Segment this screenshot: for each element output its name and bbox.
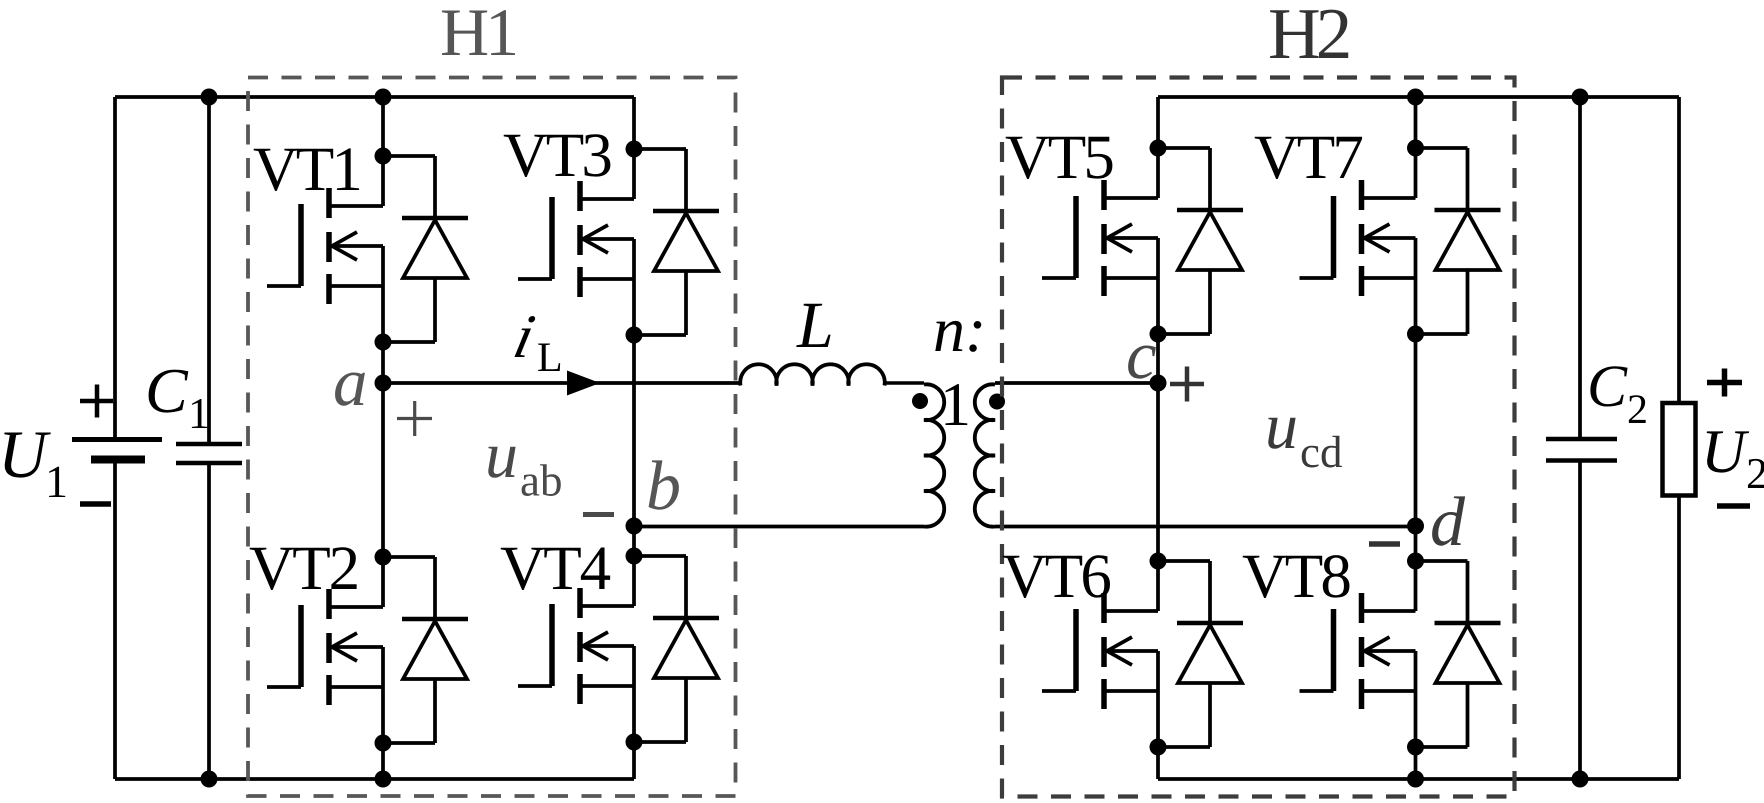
wire: H2 leg 1 (VT5/VT6) [1156,97,1160,779]
transistor VT8 [1300,553,1501,756]
node dots bottom rails [201,771,1589,788]
svg-text:c: c [1126,317,1157,393]
svg-text:L: L [796,289,834,362]
svg-text:u: u [1265,390,1298,463]
wire: leg A (VT1/VT2) [381,97,385,779]
transformer secondary winding [975,384,995,526]
plus sign node a [397,401,432,436]
svg-text:VT8: VT8 [1242,541,1350,611]
svg-text:U: U [1701,418,1750,486]
transistor VT5 [1042,140,1243,343]
svg-text:C: C [145,355,189,426]
wire: H2 bottom rail [1158,777,1679,781]
transformer primary polarity dot [912,393,928,409]
svg-text:VT1: VT1 [253,134,360,204]
transistor VT7 [1300,140,1501,343]
wire: source U1 branch [113,97,117,779]
svg-text:H1: H1 [440,0,515,70]
minus sign U1 [80,501,111,507]
wire: node a to inductor [383,381,741,385]
transformer primary winding [924,384,944,526]
minus sign node d [1369,541,1400,547]
wire: node b to transformer primary bottom [634,525,924,529]
svg-text:U: U [0,416,51,492]
svg-text:C: C [1587,353,1628,419]
battery U1 [72,440,162,460]
svg-text:n:: n: [933,294,986,365]
transformer secondary polarity dot [989,394,1005,410]
node a [375,375,392,392]
wire: load branch [1677,97,1681,779]
svg-text:u: u [485,419,518,492]
svg-text:2: 2 [1627,387,1648,433]
svg-text:1: 1 [45,456,68,507]
minus sign node b [583,512,614,517]
transistor VT6 [1042,553,1243,756]
transistor VT3 [518,141,719,344]
svg-text:H2: H2 [1268,0,1349,74]
svg-text:cd: cd [1300,427,1342,477]
svg-text:VT3: VT3 [503,120,611,190]
plus sign U1 [80,385,113,418]
svg-text:L: L [537,335,563,381]
wire: H2 top rail [1158,95,1679,99]
svg-text:ab: ab [520,456,562,506]
svg-text:VT7: VT7 [1254,122,1362,192]
node c [1150,375,1167,392]
wire: H2 leg 2 (VT7/VT8) [1414,97,1418,779]
capacitor C1 [176,444,242,463]
arrow i_L [567,371,600,396]
svg-text:VT5: VT5 [1005,122,1113,192]
svg-text:1: 1 [188,389,210,438]
svg-text:VT6: VT6 [1002,541,1110,611]
svg-text:VT2: VT2 [249,533,358,603]
transistor VT4 [518,548,719,751]
svg-text:a: a [333,344,368,420]
wire: transformer secondary bottom to node d [995,525,1416,529]
resistor U2 [1663,403,1696,496]
node d [1407,518,1424,535]
node b [626,518,643,535]
transistor VT2 [267,549,468,752]
wire: H1 bottom rail [115,777,634,781]
plus sign U2 [1707,369,1742,397]
transistor VT1 [267,148,468,351]
dashed box H1 [248,78,736,797]
wire: transformer secondary top to node c [995,381,1158,385]
minus sign U2 [1717,503,1750,509]
svg-text:b: b [646,448,681,525]
svg-text:1: 1 [940,371,971,439]
wire: leg B (VT3/VT4) [632,97,636,779]
svg-text:2: 2 [1746,449,1764,498]
wire: H1 top rail [115,95,634,99]
capacitor C2 [1546,439,1617,461]
plus sign node c [1170,367,1204,402]
svg-text:d: d [1430,484,1466,561]
svg-text:VT4: VT4 [500,533,611,603]
dashed box H2 [1002,78,1515,797]
wire: C1 branch [207,97,211,779]
wire: C2 branch [1578,97,1582,779]
node dots top rails [201,89,1589,106]
inductor L [740,364,885,385]
